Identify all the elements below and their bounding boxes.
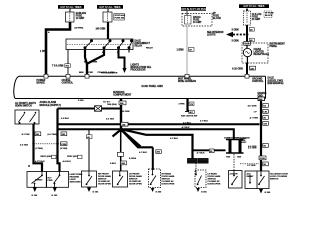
svg-text:TAN: TAN [237,156,242,159]
svg-text:PNK: PNK [89,72,94,74]
svg-text:A 7 BLK: A 7 BLK [200,120,209,123]
svg-text:HORN SWITCH: HORN SWITCH [15,105,32,107]
svg-text:BRN: BRN [79,72,84,74]
svg-text:A A BLK: A A BLK [63,160,72,163]
svg-text:A 10 ORN: A 10 ORN [232,68,243,71]
svg-text:SWITCH: SWITCH [270,179,279,181]
svg-text:A 103A: A 103A [129,157,136,160]
svg-text:A 2 BLK: A 2 BLK [61,117,70,120]
svg-text:2 PNK: 2 PNK [179,103,186,105]
svg-text:MODULE (SUPPLY): MODULE (SUPPLY) [40,105,62,107]
svg-text:G 102: G 102 [32,195,39,197]
svg-text:TAN: TAN [226,156,231,159]
svg-text:A 7 BLK: A 7 BLK [170,137,179,140]
svg-text:G 300: G 300 [265,192,272,194]
svg-text:3 ORN: 3 ORN [232,30,239,32]
svg-text:RELAY: RELAY [247,175,254,178]
svg-text:A 2 TAN: A 2 TAN [20,143,28,146]
svg-text:STOP-HAZ: STOP-HAZ [115,14,126,17]
svg-text:A 2 TAN: A 2 TAN [22,133,30,136]
svg-text:A 2 TAN: A 2 TAN [106,117,114,120]
svg-text:15.7 ATM: 15.7 ATM [248,105,257,108]
svg-text:1 PNK: 1 PNK [40,51,47,53]
svg-text:HOT IN ACCY OR RUN: HOT IN ACCY OR RUN [181,8,206,11]
svg-text:PE REGULATOR: PE REGULATOR [101,72,118,75]
svg-text:BLOCK: BLOCK [265,15,273,17]
svg-text:PWR: PWR [48,180,53,182]
svg-text:DOOR OPEN: DOOR OPEN [129,184,142,186]
svg-text:A CT BLK: A CT BLK [35,160,45,163]
svg-text:CONTROL: CONTROL [252,81,264,83]
svg-text:DASH PANEL GRID: DASH PANEL GRID [142,85,164,88]
svg-text:A 7 ORN: A 7 ORN [250,117,259,120]
svg-text:DALE: DALE [135,40,142,43]
svg-text:T 8 A ORN: T 8 A ORN [52,65,64,68]
svg-text:CONTROL: CONTROL [62,83,74,85]
svg-text:DALE: DALE [268,77,275,80]
svg-text:RECEPTACLE: RECEPTACLE [254,53,270,56]
svg-text:(A 2 TAN): (A 2 TAN) [48,133,58,136]
svg-text:RAT LIGHTS SW: RAT LIGHTS SW [181,115,197,118]
svg-text:PROCESSOR: PROCESSOR [131,70,146,72]
svg-text:DOOR OPEN: DOOR OPEN [162,184,175,186]
svg-text:BODY: BODY [241,142,248,144]
svg-text:LIGHTS: LIGHTS [207,35,216,37]
svg-text:ORN: ORN [93,62,98,64]
svg-text:10 AMP: 10 AMP [76,17,85,20]
svg-text:AUDIO ALARM: AUDIO ALARM [40,101,57,104]
svg-text:SEE INTERIOR: SEE INTERIOR [207,32,224,34]
svg-text:B A: B A [84,61,88,64]
svg-text:A 7 BLK: A 7 BLK [139,151,148,154]
svg-text:PANEL: PANEL [270,45,278,48]
svg-text:140 ORN: 140 ORN [96,28,106,31]
svg-text:TURBO: TURBO [35,179,43,181]
svg-text:G 300: G 300 [156,192,163,194]
svg-text:S 208: S 208 [78,100,84,102]
svg-text:DOOR OPEN: DOOR OPEN [98,184,111,186]
svg-text:3 ORN: 3 ORN [232,41,239,43]
svg-text:FUSE 20A: FUSE 20A [115,17,125,20]
svg-text:4 DOOR: 4 DOOR [230,173,238,176]
svg-text:CIGAR: CIGAR [254,48,262,51]
svg-text:COMPARTMENT: COMPARTMENT [113,93,132,96]
svg-text:G 301: G 301 [201,192,208,194]
svg-text:RELAY: RELAY [135,45,143,48]
svg-text:C200: C200 [260,158,266,160]
svg-text:BRAKE: BRAKE [37,82,46,85]
svg-text:(REFERENCE): (REFERENCE) [268,83,284,85]
svg-text:1 BRN: 1 BRN [177,50,184,52]
svg-text:TAN (254): TAN (254) [107,103,117,106]
svg-text:(39 PNK): (39 PNK) [75,28,84,30]
svg-text:B2 ORN: B2 ORN [122,111,130,113]
svg-text:C100: C100 [245,44,251,46]
svg-text:HOT AT ALL TIMES: HOT AT ALL TIMES [100,6,121,9]
svg-text:1 DOOR: 1 DOOR [199,161,207,163]
svg-text:G 103: G 103 [93,192,100,194]
svg-text:10 AMP: 10 AMP [193,21,202,24]
svg-text:BLOCK: BLOCK [213,18,222,20]
svg-text:HOT AT ALL TIMES: HOT AT ALL TIMES [244,5,265,8]
svg-text:(2 TAN): (2 TAN) [36,147,44,150]
svg-text:RELAY: RELAY [146,47,153,50]
svg-text:MODULATION DEL: MODULATION DEL [131,66,152,69]
svg-text:(2 TAN): (2 TAN) [60,147,68,150]
svg-text:DOOR OPEN: DOOR OPEN [208,184,221,186]
svg-text:U 7 ORN: U 7 ORN [247,165,256,167]
svg-text:A 7 BLU: A 7 BLU [183,121,192,124]
svg-text:A 2 BLK: A 2 BLK [182,126,191,129]
svg-text:SWITCHES: SWITCHES [70,182,82,184]
svg-text:HOT AT ALL TIMES: HOT AT ALL TIMES [61,6,82,9]
svg-text:4 DOOR: 4 DOOR [188,160,196,163]
svg-text:WIRE HARNESS: WIRE HARNESS [178,80,197,83]
svg-text:20 AMP: 20 AMP [252,18,261,21]
svg-text:G 103: G 103 [52,195,59,197]
svg-text:INST PANEL: INST PANEL [178,77,192,80]
svg-text:A 7 BLK: A 7 BLK [197,152,206,155]
svg-text:C200: C200 [61,144,67,146]
svg-text:A 2 ORN: A 2 ORN [248,145,257,148]
svg-text:2 BLK: 2 BLK [110,163,117,165]
